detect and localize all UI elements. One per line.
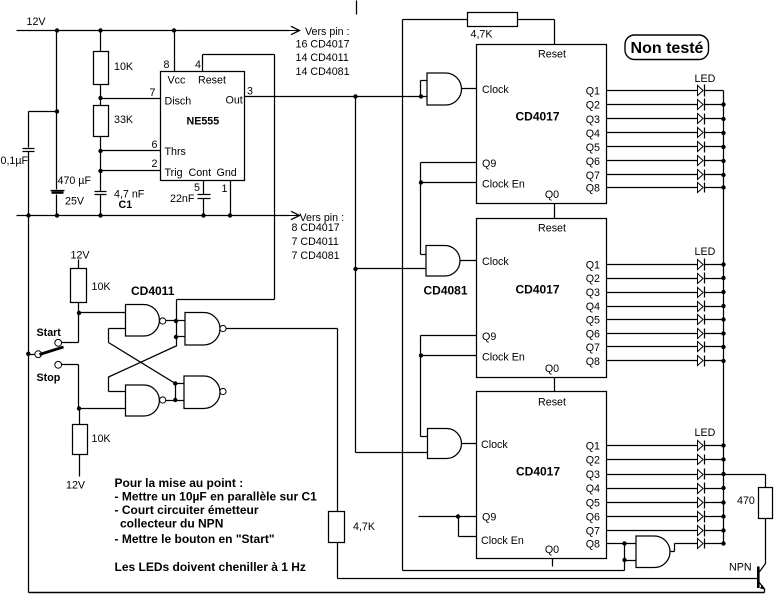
wire stop down [78,365,80,409]
svg-text:Q4: Q4 [586,128,600,140]
node bus Q5 group1 [721,145,725,149]
node Q9-ClockEn box2 [419,353,423,357]
wire start node down [78,313,80,343]
wire Q2 group2 [607,278,698,280]
wire U2A input down [108,329,110,343]
wire Out bus down [355,97,357,269]
svg-text:Q3: Q3 [586,469,600,481]
svg-text:Thrs: Thrs [165,146,186,158]
svg-text:Q6: Q6 [586,512,600,524]
node U2C input bottom [174,335,178,339]
wire to U2B input top [109,391,126,393]
svg-text:Pour la mise au point :: Pour la mise au point : [115,476,244,490]
LED D35 [698,498,704,508]
LED D36 [698,512,704,522]
wire 12V stub to 10K [78,260,80,269]
wire LED D37 cathode [705,530,724,532]
node junction 12V/divider branch [98,28,102,32]
wire Q2 group3 [607,459,698,461]
node bus Q4 group2 [721,304,725,308]
counter CD4017 box3 [477,392,607,559]
svg-text:12V: 12V [71,250,91,262]
node bus Q3 group2 [721,290,725,294]
svg-text:12V: 12V [27,16,47,28]
LED D23 [698,288,704,298]
wire 33K to C1 [100,137,102,192]
node junction stop [77,406,81,410]
wire LED D18 cathode [705,187,724,189]
wire Q8 group1 [607,187,698,189]
LED D13 [698,114,704,124]
wire 470uF top lead [56,112,58,190]
wire U2C input node [176,300,178,347]
svg-text:Reset: Reset [538,49,566,61]
svg-text:Q6: Q6 [586,329,600,341]
wire LED D11 cathode [705,90,724,92]
wire cross couple B to A [109,343,176,384]
wire pin 1 Gnd [230,181,232,216]
nand gate U2A [126,305,160,337]
capacitor 470uF 25V electrolytic [51,190,65,192]
svg-text:Clock: Clock [481,439,508,451]
node bus Q7 group1 [721,173,725,177]
wire LED D16 cathode [705,160,724,162]
svg-text:Q5: Q5 [586,498,600,510]
LED D24 [698,302,704,312]
wire Q9 box3 [419,516,477,518]
wire cross couple down [108,377,110,392]
wire LED D31 cathode [705,445,724,447]
switch common contact [35,351,42,358]
wire U2D stub top [176,383,185,385]
LED D22 [698,274,704,284]
svg-text:Q9: Q9 [482,331,496,343]
svg-text:10K: 10K [92,281,112,293]
LED D15 [698,142,704,152]
svg-text:Reset: Reset [538,223,566,235]
node junction Disch [98,96,102,100]
node bus Q6 group2 [721,331,725,335]
node bus Q8 group1 [721,185,725,189]
wire to start contact [62,342,79,344]
LED D17 [698,170,704,180]
svg-text:Q2: Q2 [586,100,600,112]
wire Reset over [203,54,275,56]
wire reset bottom up [624,561,626,571]
LED D25 [698,315,704,325]
node bus Q5 group3 [721,500,725,504]
wire 0,1uF top lead [28,112,30,148]
wire LED D32 cathode [705,459,724,461]
wire Q9 down to gate2 [420,163,422,255]
svg-text:Clock: Clock [482,84,509,96]
wire gate2 top input stub [421,254,427,256]
svg-text:Cont: Cont [189,167,212,179]
svg-text:4: 4 [195,59,201,71]
node bus Q6 group1 [721,159,725,163]
svg-text:2: 2 [152,158,158,170]
wire G4 output [671,551,675,553]
wire Q2 group1 [607,104,698,106]
wire Q3 group3 [607,474,698,476]
wire Trig pin 2 [101,170,161,172]
svg-text:Q8: Q8 [586,356,600,368]
node bus Q1 group2 [721,262,725,266]
wire stop node to 10K [79,409,81,425]
svg-text:Q0: Q0 [545,363,559,375]
wire stop node to gate [79,408,126,410]
svg-text:Q9: Q9 [482,512,496,524]
wire U2C stub top [177,320,185,322]
node bus Q2 group1 [721,102,725,106]
wire Clock En box2 [421,355,477,357]
svg-text:5: 5 [194,182,200,194]
wire LED D14 cathode [705,132,724,134]
label Non teste badge [625,35,709,60]
wire Q9 tie down box3 [458,517,460,537]
wire G4 output to LED [675,543,698,545]
wire Q4 group3 [607,488,698,490]
wire Reset down to latch [274,55,276,300]
wire NPN base line [338,578,758,580]
node bus Q4 group3 [721,486,725,490]
wire start node to gate [79,312,126,314]
wire Q5 group1 [607,146,698,148]
LED D11 [698,86,704,96]
wire Q0 box2 to reset box3 [554,378,556,392]
svg-text:14 CD4081: 14 CD4081 [296,66,350,78]
wire LED D21 cathode [705,264,724,266]
LED D27 [698,342,704,352]
node U2D input bottom [173,398,177,402]
svg-text:- Court circuiter émetteur: - Court circuiter émetteur [115,503,259,517]
wire U2D stub bottom [176,400,185,402]
LED D31 [698,441,704,451]
op-amp U1 NE555 timer box [161,72,245,181]
resistor 4,7K bottom [329,512,345,543]
node bus Q4 group1 [721,131,725,135]
svg-text:Q6: Q6 [586,156,600,168]
svg-text:CD4017: CD4017 [516,465,560,479]
svg-text:Vers pin :: Vers pin : [305,26,350,38]
wire reset top [403,19,468,21]
svg-text:8: 8 [164,59,170,71]
svg-text:Q5: Q5 [586,315,600,327]
svg-text:- Mettre le bouton en "Start": - Mettre le bouton en "Start" [115,532,275,546]
wire pin 3 Out [245,96,427,98]
svg-text:8 CD4017: 8 CD4017 [292,222,340,234]
wire LED D27 cathode [705,346,724,348]
svg-text:0,1µF: 0,1µF [1,155,29,167]
switch contact stop [55,361,62,368]
wire U2A output to node [166,320,177,322]
svg-text:22nF: 22nF [170,193,195,205]
nand gate U2B [126,385,160,416]
transistor Q1 NPN base bar [757,567,760,589]
node bus Q8 group3 [721,541,725,545]
svg-text:Q3: Q3 [586,114,600,126]
wire Q6 group2 [607,333,698,335]
wire Out bus down lower [355,269,357,453]
wire cathode bus [723,91,725,544]
LED D32 [698,455,704,465]
wire 470 top lead [765,475,767,488]
svg-text:Q7: Q7 [586,342,600,354]
switch arm [40,347,64,355]
node Out to gate1 [353,94,357,98]
node U2D input top [173,381,177,385]
LED D18 [698,183,704,193]
wire LED D33 cathode [705,474,724,476]
wire 22nF bottom lead [203,199,205,216]
wire U2C output [227,328,338,330]
wire Q9 box1 [421,162,477,164]
capacitor 22nF [198,194,211,196]
node G4 bottom input [622,558,626,562]
wire LED D36 cathode [705,516,724,518]
wire LED D22 cathode [705,278,724,280]
svg-text:Q3: Q3 [586,287,600,299]
wire LED D12 cathode [705,104,724,106]
wire Q5 group3 [607,502,698,504]
wire reset bottom over [403,570,625,572]
svg-text:10K: 10K [114,61,134,73]
nand gate U2D [184,376,220,409]
svg-text:Q1: Q1 [586,441,600,453]
wire C1 bottom lead [100,195,102,216]
wire bus to 470 [724,474,766,476]
counter CD4017 box1 [477,45,607,204]
wire Q1 group2 [607,264,698,266]
wire pin 8 Vcc [174,31,176,72]
arrow to Vers pin bottom [289,215,299,217]
wire Q6 group1 [607,160,698,162]
wire 470 to collector [765,519,767,564]
node gnd 470uF [55,213,59,217]
wire G3 output [462,443,477,445]
svg-text:Start: Start [37,327,62,339]
svg-text:Clock En: Clock En [482,179,525,191]
wire gate2 bottom input [356,268,427,270]
LED D34 [698,484,704,494]
node bus Q5 group2 [721,317,725,321]
node Q9-ClockEn box3 [456,514,460,518]
svg-text:Disch: Disch [165,96,192,108]
wire to gate3 input [356,452,428,454]
LED D21 [698,260,704,270]
svg-text:Reset: Reset [538,397,566,409]
svg-text:- Mettre un 10µF en parallèle: - Mettre un 10µF en parallèle sur C1 [115,490,318,504]
wire LED D35 cathode [705,502,724,504]
node Q9-ClockEn box1 [419,180,423,184]
wire reset into box1 [554,20,556,45]
svg-text:Non testé: Non testé [631,40,704,57]
wire U2C stub bottom [177,336,185,338]
svg-text:470: 470 [737,495,755,507]
node rail to common [26,352,30,356]
svg-text:Q0: Q0 [545,189,559,201]
svg-text:Trig: Trig [165,167,183,179]
svg-text:16 CD4017: 16 CD4017 [296,39,350,51]
wire 4,7K to base line [337,543,339,579]
wire Q0 stub box3 [552,559,554,567]
wire U2D input node [175,384,177,401]
node U2C input top [174,319,178,323]
LED D14 [698,128,704,138]
wire G1 input stub [421,80,427,82]
bubble U2D [220,388,226,394]
wire U2A input bottom stub [109,328,126,330]
svg-text:Vcc: Vcc [168,75,186,87]
wire Q7 group2 [607,346,698,348]
svg-text:LED: LED [695,73,716,85]
node bus Q2 group2 [721,276,725,280]
svg-text:CD4017: CD4017 [515,110,559,124]
wire G1 input tie [420,81,422,97]
resistor 4,7K top [468,13,518,27]
wire LED D28 cathode [705,360,724,362]
wire Q1 group1 [607,90,698,92]
wire LED D13 cathode [705,118,724,120]
wire Q8 group2 [607,360,698,362]
svg-text:Q8: Q8 [586,183,600,195]
wire Q7 group3 [607,530,698,532]
svg-text:NE555: NE555 [187,116,220,128]
bubble U2B [160,397,166,403]
node junction caps [55,109,59,113]
wire pin 5 Cont [203,181,205,195]
svg-text:7: 7 [150,87,156,99]
wire pin 4 Reset up [202,55,204,72]
svg-text:1: 1 [222,183,228,195]
wire LED D15 cathode [705,146,724,148]
wire gate3 top input stub [421,436,428,438]
capacitor 0,1uF [23,148,35,150]
svg-text:Q2: Q2 [586,273,600,285]
svg-text:Clock En: Clock En [481,535,524,547]
svg-text:Q5: Q5 [586,142,600,154]
wire Q9 down to gate3 [420,336,422,437]
wire G4 bottom input [625,560,637,562]
wire ground rail [17,215,290,217]
wire G4 output up [674,544,676,552]
svg-text:LED: LED [695,246,716,258]
svg-text:Q9: Q9 [482,158,496,170]
LED D33 [698,470,704,480]
wire stub top edge [356,1,358,15]
wire Q3 group2 [607,292,698,294]
wire Q0 box1 to reset box2 [554,204,556,219]
node bus Q7 group3 [721,528,725,532]
wire stop contact right [62,364,79,366]
node bus Q3 group1 [721,117,725,121]
wire 0,1uF bottom lead [28,152,30,216]
wire G2 output [461,260,477,262]
wire emitter to ground [764,589,766,593]
and gate G3 [428,429,462,459]
svg-text:Gnd: Gnd [217,167,237,179]
svg-text:C1: C1 [119,199,133,211]
svg-text:470 µF: 470 µF [58,175,92,187]
svg-text:4,7K: 4,7K [353,521,376,533]
arrow to Vers pin top [289,30,299,32]
LED D12 [698,100,704,110]
wire LED D26 cathode [705,333,724,335]
wire cross couple A to B [109,346,177,377]
node junction 12V/pin8 [172,28,176,32]
svg-text:Reset: Reset [198,75,226,87]
node gnd C1 [98,213,102,217]
transistor Q1 NPN collector [759,564,765,573]
wire Q7 group1 [607,174,698,176]
wire Clock En box1 [421,182,477,184]
wire Q9 box2 [421,335,477,337]
wire Q5 group2 [607,319,698,321]
svg-text:Q8: Q8 [586,539,600,551]
wire latch node to 555 reset [177,299,275,301]
wire Disch pin 7 [101,98,161,100]
node junction Thrs [98,149,102,153]
wire reset vertical [402,20,404,571]
wire Q8 box3 [607,543,625,545]
svg-text:collecteur du NPN: collecteur du NPN [120,517,223,531]
node bus Q8 group2 [721,359,725,363]
svg-text:Q1: Q1 [586,260,600,272]
svg-text:CD4017: CD4017 [515,283,559,297]
LED D37 [698,526,704,536]
svg-text:Clock En: Clock En [482,352,525,364]
resistor 10K top [94,52,109,85]
nand gate U2C [185,313,220,346]
node bus Q6 group3 [721,514,725,518]
svg-text:CD4081: CD4081 [424,284,468,298]
wire Thrs pin 6 [101,150,161,152]
svg-text:25V: 25V [65,196,85,208]
wire reset top right [518,19,555,21]
node bus Q1 group3 [721,443,725,447]
wire bottom ground rail [29,592,765,594]
wire G1 output [462,88,477,90]
wire Q8 tie down [624,544,626,561]
node gnd 22nF [201,213,205,217]
svg-text:Q4: Q4 [586,483,600,495]
wire 12V down to decoupling caps [56,31,58,112]
svg-text:Q2: Q2 [586,455,600,467]
wire to 0,1uF [29,111,57,113]
node Q8 branch [622,541,626,545]
LED D16 [698,156,704,166]
node junction 12V/470uF branch [55,28,59,32]
wire 470uF bottom lead [56,195,58,216]
LED D38 [698,539,704,549]
svg-text:Q7: Q7 [586,170,600,182]
svg-text:10K: 10K [92,433,112,445]
wire 10K to start node [78,303,80,313]
svg-text:7 CD4011: 7 CD4011 [292,236,339,248]
bubble U2C [220,325,226,331]
svg-text:LED: LED [695,427,716,439]
wire LED D25 cathode [705,319,724,321]
svg-text:Stop: Stop [37,372,61,384]
node G1 input [419,94,423,98]
svg-text:Out: Out [226,95,243,107]
resistor 10K stop pullup [73,425,88,455]
svg-text:6: 6 [152,139,158,151]
node bus Q3 group3 [721,472,725,476]
svg-text:Q7: Q7 [586,526,600,538]
wire Q4 group2 [607,306,698,308]
switch contact start [55,339,62,346]
